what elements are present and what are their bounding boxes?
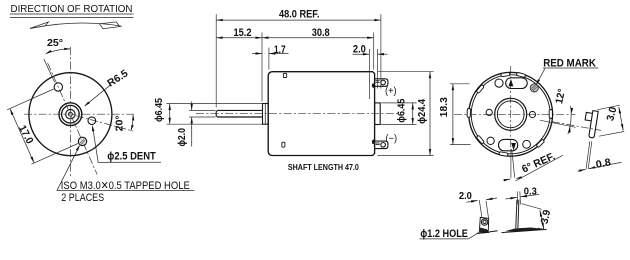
ext lines phi6.45 boss <box>167 103 263 105</box>
dimension 17.0 extension lines <box>7 89 54 110</box>
side view centerline <box>196 113 399 115</box>
ext lines phi24.4 <box>378 71 434 73</box>
motor front outline circle <box>29 73 112 156</box>
ext line body front face <box>268 48 270 70</box>
detail terminal base solder <box>505 228 544 232</box>
dimension 30.8 line <box>262 37 374 39</box>
end cap side hole left <box>486 109 492 115</box>
bottom slot marker triangle <box>511 143 516 150</box>
svg-text:ϕ1.2 HOLE: ϕ1.2 HOLE <box>420 228 468 240</box>
svg-text:ϕ2.5 DENT: ϕ2.5 DENT <box>107 151 156 163</box>
svg-text:ϕ2.0: ϕ2.0 <box>177 128 188 147</box>
3.9 extension lines <box>522 204 542 210</box>
motor body side outline <box>268 72 374 156</box>
end cap center boss circles <box>495 98 527 130</box>
ext lines phi6.45 rear <box>381 102 416 104</box>
svg-text:20°: 20° <box>114 115 125 131</box>
body vent mark bottom <box>282 142 285 147</box>
detail tab solder fillet <box>479 228 490 234</box>
terminal minus <box>375 141 388 149</box>
detail tab hole (phi1.2) <box>481 219 487 225</box>
end cap side hole right <box>529 111 535 117</box>
dimension 20 deg arc <box>131 114 133 131</box>
svg-text:ISO M3.0✕0.5 TAPPED HOLE: ISO M3.0✕0.5 TAPPED HOLE <box>61 180 190 192</box>
svg-text:ϕ24.4: ϕ24.4 <box>417 99 428 124</box>
dimension phi2.0 line <box>191 102 193 111</box>
front vertical centerline <box>69 47 71 176</box>
projection lines to detail <box>479 200 482 217</box>
shaft <box>216 110 262 117</box>
svg-text:2.0: 2.0 <box>353 44 366 56</box>
terminal plus mount wedge <box>372 83 375 89</box>
dimension 0.3 arrows <box>506 197 517 199</box>
ext line body rear <box>373 33 375 70</box>
svg-text:15.2: 15.2 <box>234 27 252 39</box>
svg-text:2.0: 2.0 <box>459 191 472 202</box>
detail tab outline <box>480 217 489 230</box>
body vent mark top <box>283 73 286 77</box>
terminal minus mount wedge <box>372 139 375 145</box>
red mark spot <box>530 84 538 92</box>
6 deg REF leader line <box>516 155 563 181</box>
dimension 12 deg arc <box>568 106 571 134</box>
top slot marker triangle <box>509 79 514 86</box>
ext lines phi2.0 shaft <box>189 109 215 111</box>
bottom brush slot <box>499 139 518 150</box>
dimension 2.0 arrows (terminal) <box>353 53 370 55</box>
end cap outer circle <box>469 72 553 156</box>
svg-text:(−): (−) <box>386 133 398 144</box>
ext line shaft tip <box>215 14 217 107</box>
6 deg arrows <box>503 179 510 180</box>
tapped-hole axis centerline <box>48 63 98 175</box>
dimension 25 deg arc <box>46 49 71 54</box>
phi1.2 HOLE underline leader <box>420 238 469 240</box>
ext lines 2.0 terminal <box>368 49 370 99</box>
svg-text:RED MARK: RED MARK <box>543 57 596 69</box>
terminal axis centerline <box>552 122 601 131</box>
svg-text:0.3: 0.3 <box>524 187 537 198</box>
25 deg extension solid segment <box>44 59 55 82</box>
0.8 extension lines <box>586 141 590 169</box>
detail tab base line <box>477 231 498 234</box>
dimension 15.2 line <box>216 37 262 39</box>
svg-text:2 PLACES: 2 PLACES <box>61 192 104 204</box>
dimension phi24.4 line <box>429 72 431 156</box>
end cap inner rim circle <box>471 75 550 154</box>
boss washer line <box>264 104 266 125</box>
end cap horizontal centerline <box>454 113 576 115</box>
rear bearing bump <box>375 103 381 125</box>
title underline 1 <box>10 13 134 15</box>
dent hole (phi 2.5) <box>88 117 96 125</box>
front horizontal centerline <box>24 113 134 115</box>
dimension 2.0 arrows (detail) <box>467 200 478 202</box>
svg-text:18.3: 18.3 <box>439 97 450 117</box>
dimension phi6.45 right line <box>412 103 414 125</box>
svg-text:1.7: 1.7 <box>274 44 286 56</box>
ext line boss face <box>261 33 263 102</box>
rear terminal bracket <box>583 110 599 138</box>
front hub boss circles <box>59 103 82 126</box>
dimension phi6.45 left line <box>169 104 171 125</box>
rotation direction curved arrow <box>30 23 122 29</box>
end cap hole lower-left <box>487 137 494 144</box>
6 deg measure lines <box>510 149 512 178</box>
svg-text:DIRECTION OF ROTATION: DIRECTION OF ROTATION <box>11 4 133 15</box>
dimension 17.0 line <box>10 109 34 164</box>
end cap hole lower-right <box>523 140 531 148</box>
svg-text:(+): (+) <box>385 86 397 97</box>
svg-text:ϕ6.45: ϕ6.45 <box>154 98 165 122</box>
0.3 extension lines <box>516 191 519 204</box>
tapped hole lower (M3.0) with thread hatch <box>78 137 86 145</box>
dimension 48.0 REF line <box>216 19 381 21</box>
svg-text:48.0 REF.: 48.0 REF. <box>279 8 320 20</box>
title underline 2 <box>10 16 134 18</box>
RED MARK leader <box>536 68 545 84</box>
end cap hole upper-left <box>495 79 503 87</box>
ext lines 18.3 <box>450 83 470 85</box>
dimension 3.0 line <box>619 107 623 131</box>
bearing boss front <box>263 104 269 125</box>
dent axis centerline <box>76 116 133 131</box>
dimension 18.3 line <box>452 84 454 145</box>
dimension 1.7 arrows <box>252 53 262 55</box>
svg-text:ϕ6.45: ϕ6.45 <box>397 99 408 123</box>
phi2.5 DENT leader <box>93 128 99 163</box>
ISO leader <box>57 146 80 191</box>
dimension 3.9 line <box>540 210 544 229</box>
detail terminal plate <box>516 200 517 228</box>
dimension 0.8 arrows <box>578 169 586 171</box>
top brush slot <box>506 78 528 89</box>
svg-text:25°: 25° <box>47 38 63 49</box>
12 deg line <box>540 120 576 127</box>
phi2.5 DENT underline <box>98 161 161 163</box>
terminal plus <box>375 79 388 87</box>
ext line terminal tip <box>380 14 382 88</box>
leader R6.5 <box>85 85 111 106</box>
svg-text:30.8: 30.8 <box>312 27 330 39</box>
front shaft circles <box>66 110 75 119</box>
ISO label underline <box>57 190 194 192</box>
ext lines 3.0 <box>597 105 620 110</box>
svg-text:SHAFT LENGTH 47.0: SHAFT LENGTH 47.0 <box>288 162 359 172</box>
tapped hole upper (M3.0) <box>54 83 62 91</box>
RED MARK underline <box>543 67 599 69</box>
detail base line <box>502 229 547 232</box>
end cap rim crimp slots <box>501 72 510 76</box>
end cap vertical centerline <box>510 66 512 148</box>
